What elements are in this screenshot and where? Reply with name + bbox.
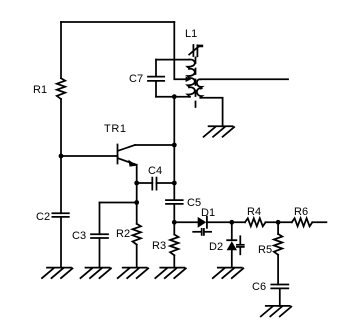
svg-text:D2: D2 <box>209 241 223 253</box>
diode D2 (varactor) <box>209 236 244 254</box>
ground (C6) <box>261 306 292 317</box>
junction detector node <box>172 220 177 225</box>
wire D2 to ground <box>231 250 233 267</box>
wire C2 to ground <box>60 217 62 268</box>
ground (R3) <box>155 268 186 279</box>
junction R5 node <box>276 220 281 225</box>
junction base node <box>59 154 64 159</box>
resistor R2 <box>116 203 141 268</box>
wire secondary to ground <box>200 98 222 127</box>
svg-text:R3: R3 <box>152 240 166 252</box>
wire supply feed down to L1 tap <box>174 22 187 79</box>
wire emitter bypass branch <box>100 202 137 204</box>
wire D1 to R4 <box>207 221 245 223</box>
capacitor C5 <box>166 183 201 222</box>
secondary winding <box>197 79 202 97</box>
svg-text:C3: C3 <box>72 230 86 242</box>
transformer L1 <box>185 28 203 108</box>
trimmer arrow shaft <box>189 47 198 55</box>
resistor R5 <box>258 222 282 284</box>
ground (D2) <box>213 268 244 279</box>
svg-text:D1: D1 <box>201 207 215 219</box>
ground (R2) <box>118 268 149 279</box>
wire top supply rail <box>61 21 174 23</box>
svg-text:R4: R4 <box>247 206 261 218</box>
svg-text:C5: C5 <box>187 197 201 209</box>
wire base <box>61 155 118 157</box>
ground (C2) <box>42 268 73 279</box>
wire node to D1 <box>174 221 197 223</box>
wire secondary output <box>200 78 288 80</box>
resistor R3 <box>152 222 179 267</box>
svg-text:L1: L1 <box>185 28 197 40</box>
svg-text:R1: R1 <box>33 84 47 96</box>
wire R4 to R6 <box>266 221 292 223</box>
svg-text:C7: C7 <box>129 73 143 85</box>
wire rail collector to C4 <box>173 145 175 183</box>
wire left rail upper <box>60 22 62 78</box>
ground (L1 secondary) <box>204 126 235 137</box>
trimmer arrow head <box>198 45 204 49</box>
primary winding <box>188 60 195 97</box>
svg-text:C2: C2 <box>36 211 50 223</box>
trimmer bars <box>192 45 194 56</box>
capacitor C6 <box>252 281 288 306</box>
junction C4 / C5 node <box>172 181 177 186</box>
capacitor C7 <box>129 60 164 97</box>
junction emitter / C4 node <box>134 181 139 186</box>
svg-text:C4: C4 <box>148 165 162 177</box>
diode D1 (varactor) <box>193 207 215 235</box>
core (dashed) <box>195 58 197 109</box>
L1 tap junction arrow <box>186 76 192 82</box>
ground (C3) <box>81 268 112 279</box>
resistor R4 <box>245 206 266 226</box>
junction tank bottom node <box>172 94 177 99</box>
svg-text:R5: R5 <box>258 244 272 256</box>
svg-text:TR1: TR1 <box>104 123 127 135</box>
junction emitter / R2 / C3 node <box>134 200 139 205</box>
wire output right <box>312 221 326 223</box>
resistor R6 <box>292 206 313 226</box>
secondary turn cusp mark <box>200 87 203 90</box>
wire D2 branch <box>231 222 233 240</box>
wire tank top <box>156 59 189 61</box>
capacitor C4 <box>137 165 175 190</box>
junction collector node <box>172 143 177 148</box>
capacitor C3 <box>72 203 108 268</box>
primary turn cusp marks <box>186 66 189 69</box>
wire tank bottom to collector <box>173 97 175 145</box>
wire left rail lower <box>60 99 62 213</box>
resistor R1 <box>33 78 65 99</box>
wire collector to tank rail <box>135 144 174 146</box>
wire tank bottom <box>156 96 190 98</box>
wire emitter down <box>136 165 138 203</box>
junction D2 node <box>229 220 234 225</box>
svg-text:C6: C6 <box>252 281 266 293</box>
transistor TR1 <box>104 123 137 167</box>
svg-text:R2: R2 <box>116 228 130 240</box>
svg-text:R6: R6 <box>294 206 308 218</box>
capacitor C2 <box>36 211 69 223</box>
